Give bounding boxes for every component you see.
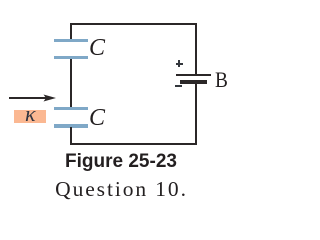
battery minus sign bbox=[175, 85, 182, 87]
wire left lower stub bbox=[70, 127, 72, 143]
capacitor C2 top plate bbox=[54, 107, 88, 111]
arrow insertion bbox=[8, 92, 57, 105]
battery B negative plate (short thick) bbox=[180, 80, 207, 84]
wire right upper bbox=[195, 23, 197, 74]
caption question bbox=[0, 180, 243, 199]
battery plus sign bbox=[176, 63, 183, 65]
label C2 value C bbox=[89, 110, 105, 126]
kappa dielectric box bbox=[14, 110, 46, 124]
wire middle vertical bbox=[70, 59, 72, 107]
capacitor C1 bottom plate bbox=[54, 56, 88, 60]
wire top horizontal bbox=[70, 23, 197, 25]
label battery B bbox=[215, 72, 228, 87]
capacitor C1 top plate bbox=[54, 39, 88, 43]
wire left upper stub bbox=[70, 23, 72, 39]
wire right lower bbox=[195, 84, 197, 145]
label C1 value C bbox=[89, 40, 105, 56]
wire bottom horizontal bbox=[70, 143, 197, 145]
kappa label bbox=[25, 104, 36, 123]
caption figure number bbox=[0, 152, 242, 171]
battery B positive plate (long thin) bbox=[176, 74, 211, 76]
capacitor C2 bottom plate bbox=[54, 124, 88, 128]
